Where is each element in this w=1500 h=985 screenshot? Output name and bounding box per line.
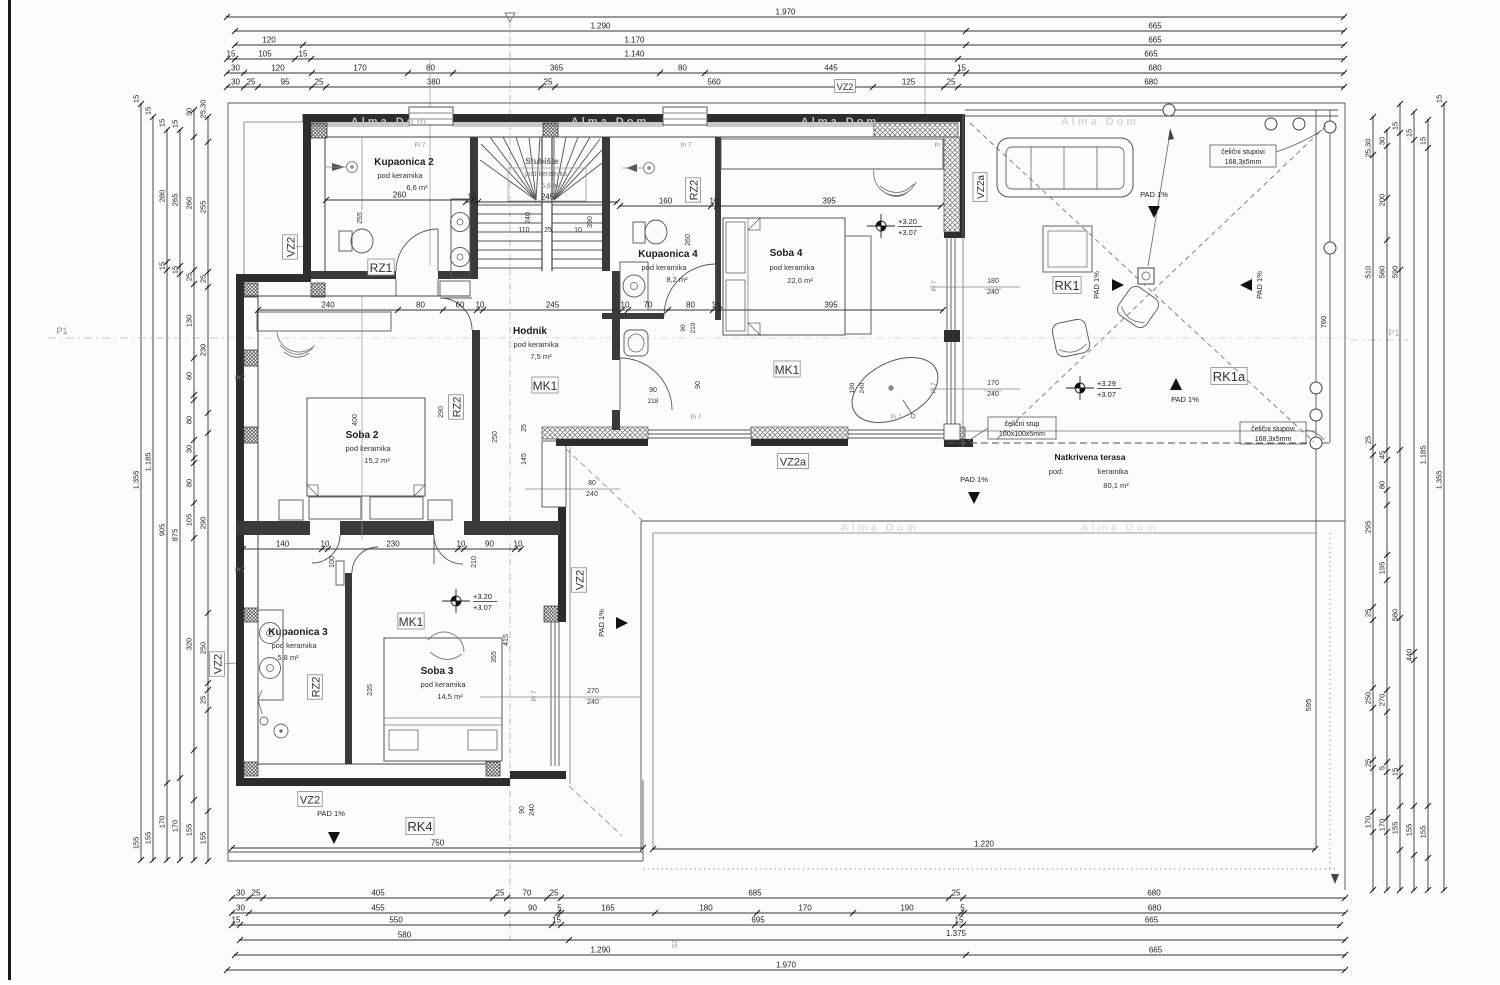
Soba2 nightstands	[279, 500, 303, 520]
right col 3	[1399, 104, 1401, 890]
door Kup3/corridor small arc	[352, 547, 378, 573]
page left border bar	[8, 0, 11, 980]
svg-text:405: 405	[371, 889, 385, 898]
bottom wall upper block (south face of suite) hatch band	[542, 427, 648, 439]
left col 6	[207, 117, 209, 861]
svg-text:15: 15	[158, 262, 167, 270]
dotted vertical right	[1329, 533, 1331, 871]
svg-text:120: 120	[271, 64, 285, 73]
svg-text:30: 30	[1378, 137, 1387, 145]
svg-text:90: 90	[649, 387, 657, 394]
mark RK4	[406, 818, 434, 835]
terrace column circles	[1163, 104, 1175, 116]
svg-text:760: 760	[1319, 316, 1328, 329]
hatched wall band top-right L vertical	[944, 137, 960, 232]
svg-text:čelični stup: čelični stup	[1005, 421, 1040, 428]
svg-text:pod keramika: pod keramika	[769, 263, 815, 272]
bottom row3	[232, 924, 1340, 926]
svg-text:255: 255	[199, 201, 208, 214]
svg-text:RK1: RK1	[1054, 278, 1079, 293]
svg-text:1.290: 1.290	[590, 22, 611, 31]
svg-text:MK1: MK1	[775, 363, 800, 377]
svg-text:80: 80	[588, 480, 596, 487]
svg-text:905: 905	[158, 524, 167, 537]
svg-text:80: 80	[678, 64, 687, 73]
mark VZ2 left lower rot	[210, 652, 225, 676]
svg-text:VZ2a: VZ2a	[780, 457, 807, 469]
wall inner zone under Kup2 wall	[325, 295, 470, 297]
deck dim 1220	[653, 848, 1315, 850]
svg-text:1.185: 1.185	[144, 453, 153, 472]
wall MK1 suite west x612 below door	[612, 410, 620, 430]
svg-text:190: 190	[900, 904, 914, 913]
svg-text:25: 25	[199, 275, 208, 283]
wall top inner zone	[325, 136, 946, 138]
bottom row1	[232, 897, 1345, 899]
terrace X diagonal 1	[970, 123, 1314, 442]
svg-text:170: 170	[798, 904, 812, 913]
svg-text:80,1 m²: 80,1 m²	[1103, 481, 1129, 490]
svg-text:80: 80	[416, 301, 425, 310]
svg-text:1.355: 1.355	[1435, 471, 1444, 490]
Soba3 radiator	[336, 561, 344, 585]
left col 1	[140, 104, 142, 860]
svg-text:270: 270	[1378, 694, 1387, 707]
svg-text:665: 665	[1148, 22, 1162, 31]
svg-text:RK4: RK4	[407, 819, 432, 834]
bottom row6	[227, 969, 1345, 971]
Soba2 chair arcs	[277, 332, 315, 357]
svg-text:30: 30	[185, 108, 194, 116]
svg-text:1.220: 1.220	[974, 840, 995, 849]
survey marker Soba3	[442, 589, 497, 613]
svg-text:210: 210	[690, 322, 697, 333]
windows in south wall of suite	[648, 429, 751, 431]
svg-text:RZ2: RZ2	[452, 397, 464, 418]
svg-text:170: 170	[987, 380, 999, 387]
svg-text:260: 260	[393, 191, 407, 200]
svg-text:170: 170	[1364, 816, 1373, 829]
svg-text:665: 665	[1145, 916, 1159, 925]
pillar hatch top wall mid	[543, 123, 558, 137]
svg-text:RZ2: RZ2	[689, 180, 701, 201]
svg-text:1.290: 1.290	[590, 946, 611, 955]
wall Soba2/Soba3 y521	[236, 521, 310, 535]
svg-text:15: 15	[1419, 137, 1428, 145]
svg-text:5,8 m²: 5,8 m²	[277, 653, 299, 662]
svg-text:595: 595	[1304, 699, 1313, 712]
Soba4 wardrobe	[721, 139, 943, 169]
svg-text:105: 105	[185, 514, 194, 527]
mark VZ2a right rot	[973, 173, 987, 202]
window east wall (VZ2)	[550, 622, 552, 766]
svg-text:Pr 7: Pr 7	[890, 415, 902, 421]
svg-text:10: 10	[712, 301, 721, 310]
mark RZ2 (Kup4)	[686, 178, 701, 202]
terrace X diagonal 2	[995, 126, 1326, 441]
svg-text:VZ2: VZ2	[300, 795, 320, 807]
celicni stup box bottom left	[988, 417, 1056, 439]
svg-text:25: 25	[252, 889, 261, 898]
svg-text:10: 10	[457, 540, 466, 549]
svg-text:15: 15	[1391, 122, 1400, 130]
svg-text:25: 25	[544, 78, 553, 87]
svg-text:Pr 7: Pr 7	[932, 280, 938, 292]
Soba3 chair arc	[428, 632, 464, 660]
svg-text:5: 5	[1378, 766, 1387, 770]
svg-text:PAD 1%: PAD 1%	[1171, 395, 1199, 404]
svg-text:Alma Dom: Alma Dom	[801, 116, 879, 128]
svg-text:VZ2: VZ2	[837, 82, 854, 92]
svg-text:260: 260	[185, 197, 194, 210]
svg-text:15: 15	[227, 50, 236, 59]
svg-text:25: 25	[1364, 759, 1373, 767]
svg-text:RK1a: RK1a	[1213, 369, 1246, 384]
svg-text:15: 15	[552, 916, 561, 925]
svg-text:25,30: 25,30	[1364, 139, 1373, 158]
svg-text:25: 25	[947, 78, 956, 87]
svg-text:665: 665	[1144, 50, 1158, 59]
svg-text:240: 240	[587, 699, 599, 706]
svg-text:125: 125	[902, 78, 916, 87]
Soba4 bed pillows	[726, 222, 745, 273]
svg-text:Alma Dom: Alma Dom	[841, 522, 919, 534]
mark VZ2a south	[777, 454, 808, 469]
window W top-left (VZ2)	[409, 107, 453, 125]
Kup4 vanity	[620, 262, 648, 310]
svg-text:RZ1: RZ1	[370, 261, 393, 275]
right wall hatch cap	[944, 232, 965, 238]
svg-text:VZ2: VZ2	[286, 237, 298, 257]
svg-text:240: 240	[859, 382, 866, 393]
svg-text:+3.07: +3.07	[473, 603, 492, 612]
svg-text:685: 685	[748, 889, 762, 898]
svg-text:155: 155	[132, 837, 141, 850]
svg-text:15,2 m²: 15,2 m²	[364, 456, 390, 465]
svg-text:30: 30	[236, 904, 245, 913]
svg-text:15: 15	[299, 50, 308, 59]
svg-text:MK1: MK1	[399, 615, 424, 629]
Kup2 dim 260	[326, 199, 473, 201]
svg-text:15: 15	[1435, 95, 1444, 103]
bottom wall lower-left block	[236, 778, 510, 786]
svg-text:80: 80	[185, 416, 194, 424]
svg-text:695: 695	[751, 916, 765, 925]
dim 1.970 top	[227, 16, 1344, 18]
Soba3 pillows	[389, 730, 418, 750]
svg-text:560: 560	[707, 78, 721, 87]
svg-text:45: 45	[1378, 451, 1387, 459]
svg-text:160: 160	[659, 197, 673, 206]
svg-text:5: 5	[557, 904, 562, 913]
svg-text:380: 380	[427, 78, 441, 87]
terrace right edge lines	[1315, 110, 1317, 849]
Soba3 bed	[384, 638, 502, 761]
Kup2 toilet	[339, 231, 352, 251]
corridor dim row	[258, 309, 943, 311]
svg-text:Pr 7: Pr 7	[680, 143, 692, 149]
svg-text:1.970: 1.970	[775, 8, 796, 17]
svg-text:320: 320	[185, 638, 194, 651]
svg-text:200: 200	[1378, 194, 1387, 207]
step wall dark	[236, 274, 311, 282]
svg-text:90: 90	[680, 324, 687, 332]
dim 750	[232, 847, 643, 849]
svg-text:270: 270	[587, 688, 599, 695]
svg-text:keramika: keramika	[1098, 467, 1129, 476]
svg-text:Kupaonica 2: Kupaonica 2	[374, 157, 434, 168]
celicni stupovi box bottom right	[1240, 422, 1306, 444]
terrace chair 2	[1051, 318, 1091, 358]
svg-text:1.375: 1.375	[946, 929, 967, 938]
Kup4 wall symbol	[644, 163, 655, 174]
svg-text:Soba 4: Soba 4	[770, 248, 803, 259]
svg-text:60: 60	[456, 301, 465, 310]
svg-text:pod keramika: pod keramika	[271, 641, 317, 650]
bottom row2	[232, 912, 1345, 914]
staircase treads left flight	[478, 204, 542, 206]
svg-text:15: 15	[955, 916, 964, 925]
svg-text:15: 15	[171, 266, 180, 274]
east wall lower-left block dark	[558, 441, 566, 622]
svg-text:1.970: 1.970	[776, 961, 797, 970]
svg-text:25: 25	[1364, 436, 1373, 444]
svg-text:100: 100	[329, 556, 336, 568]
svg-text:680: 680	[1144, 78, 1158, 87]
svg-text:22,0 m²: 22,0 m²	[787, 276, 813, 285]
svg-text:10: 10	[621, 301, 630, 310]
svg-text:VZ2: VZ2	[213, 654, 225, 674]
left col 4	[179, 130, 181, 860]
svg-text:+3.20: +3.20	[898, 217, 917, 226]
svg-text:15: 15	[957, 64, 966, 73]
svg-text:70: 70	[523, 889, 532, 898]
terrace top edge lines	[965, 109, 1338, 111]
svg-text:580: 580	[398, 931, 412, 940]
dim 15/105/15/1140/665	[227, 58, 1344, 60]
dim row6	[227, 86, 1344, 88]
svg-text:pod keramika: pod keramika	[345, 444, 391, 453]
svg-text:155: 155	[1391, 822, 1400, 835]
svg-text:295: 295	[1364, 521, 1373, 534]
celicni stupovi box top	[1210, 145, 1276, 167]
pillar hatch step wall	[244, 283, 258, 297]
svg-text:PAD 1%: PAD 1%	[1255, 271, 1264, 299]
svg-text:180: 180	[699, 904, 713, 913]
svg-text:30: 30	[236, 889, 245, 898]
svg-text:6,6 m²: 6,6 m²	[406, 183, 428, 192]
svg-text:250: 250	[199, 642, 208, 655]
stairs dim	[466, 201, 617, 203]
svg-text:245: 245	[546, 301, 560, 310]
right col 6	[1443, 104, 1445, 890]
svg-text:Alma Dom: Alma Dom	[571, 116, 649, 128]
wall stairs east x602	[602, 137, 610, 271]
wall stairs west x470	[470, 137, 478, 271]
svg-text:25: 25	[544, 227, 552, 234]
svg-text:210: 210	[471, 556, 478, 568]
door Kup4 arc	[664, 264, 716, 316]
svg-text:90: 90	[695, 381, 702, 389]
svg-text:6,6 m²: 6,6 m²	[541, 183, 562, 190]
right col 1	[1372, 117, 1374, 890]
Kup3 shower symbol	[260, 717, 268, 725]
staircase landing dashed	[508, 168, 586, 201]
svg-text:30: 30	[185, 445, 194, 453]
left col 5	[193, 110, 195, 860]
svg-text:Pr 7: Pr 7	[934, 143, 946, 149]
svg-text:665: 665	[1148, 36, 1162, 45]
deck top edge	[641, 520, 1345, 522]
MK1 suite bathtub	[841, 344, 948, 436]
svg-text:170: 170	[353, 64, 367, 73]
svg-text:P1: P1	[56, 326, 67, 336]
svg-text:218: 218	[648, 398, 659, 405]
east wall outer line	[569, 447, 571, 784]
right wall outer dark line	[960, 114, 965, 237]
wall Kup3/Soba3 x345	[345, 573, 352, 764]
svg-text:15: 15	[1405, 129, 1414, 137]
right col 4	[1413, 112, 1415, 890]
svg-text:1.355: 1.355	[132, 471, 141, 490]
dotted line bottom	[643, 868, 1335, 870]
svg-text:680: 680	[1147, 889, 1161, 898]
svg-text:590: 590	[1391, 266, 1400, 279]
witness lines from top dims	[429, 60, 431, 266]
svg-text:455: 455	[371, 904, 385, 913]
svg-text:290: 290	[438, 406, 445, 418]
left wall upper dark	[303, 114, 311, 282]
svg-text:170: 170	[171, 820, 180, 833]
Kup2 vanity	[451, 199, 470, 278]
svg-text:25,30: 25,30	[199, 100, 208, 119]
svg-text:Alma Dom: Alma Dom	[1081, 522, 1159, 534]
svg-text:290: 290	[199, 517, 208, 530]
svg-text:80: 80	[185, 479, 194, 487]
left col 2	[152, 117, 154, 860]
right wall windows below hatch	[946, 237, 948, 424]
dim 1290/665	[235, 30, 1344, 32]
svg-text:10: 10	[321, 540, 330, 549]
mark RK1a	[1211, 368, 1247, 385]
svg-text:240: 240	[525, 212, 532, 224]
svg-text:240: 240	[987, 391, 999, 398]
svg-text:140: 140	[276, 540, 290, 549]
svg-text:Pr 7: Pr 7	[690, 415, 702, 421]
bottom row5	[235, 954, 1345, 956]
mark MK1 suite	[774, 361, 800, 377]
svg-text:S2: S2	[672, 940, 679, 949]
svg-text:pod keramika: pod keramika	[420, 680, 466, 689]
svg-text:195: 195	[1378, 562, 1387, 575]
svg-text:14,5 m²: 14,5 m²	[437, 692, 463, 701]
staircase center stringers	[541, 137, 543, 271]
svg-text:pod:: pod:	[1049, 467, 1064, 476]
svg-text:čelični stupovi: čelični stupovi	[1251, 426, 1295, 433]
svg-text:MK1: MK1	[533, 379, 558, 393]
svg-text:25: 25	[496, 889, 505, 898]
svg-text:Natkrivena terasa: Natkrivena terasa	[1055, 452, 1126, 462]
svg-text:145: 145	[521, 453, 528, 465]
mark MK1 hodnik	[532, 377, 558, 393]
left wall lower dark	[236, 274, 244, 786]
svg-text:100x100x5mm: 100x100x5mm	[999, 431, 1045, 438]
wall Kup4 west x612 lower part	[612, 271, 620, 360]
svg-text:168,3x5mm: 168,3x5mm	[1255, 436, 1292, 443]
svg-text:7,5 m²: 7,5 m²	[530, 352, 552, 361]
dim row5	[227, 72, 1344, 74]
svg-text:Hodnik: Hodnik	[513, 326, 547, 337]
svg-text:165: 165	[601, 904, 615, 913]
svg-text:365: 365	[550, 64, 564, 73]
svg-text:15: 15	[144, 107, 153, 115]
wall top exterior dark band	[303, 114, 410, 122]
svg-text:pod keramika: pod keramika	[513, 340, 559, 349]
svg-text:680: 680	[1148, 64, 1162, 73]
svg-text:260: 260	[685, 234, 692, 246]
wall Kup4/Soba4 x715	[715, 137, 721, 320]
svg-text:10: 10	[710, 197, 719, 206]
svg-text:25: 25	[521, 424, 528, 432]
svg-text:10: 10	[514, 540, 523, 549]
staircase fan rays right	[553, 137, 555, 200]
svg-text:Kupaonica 4: Kupaonica 4	[638, 249, 698, 260]
Soba4 top dim	[620, 205, 941, 207]
valley dashed	[566, 449, 644, 522]
svg-text:15: 15	[1391, 768, 1400, 776]
mark VZ2 bottom	[298, 792, 322, 807]
svg-text:Alma Dom: Alma Dom	[1061, 116, 1139, 128]
svg-text:550: 550	[389, 916, 403, 925]
svg-text:95: 95	[281, 78, 290, 87]
door Soba2 arc	[440, 298, 472, 330]
svg-text:Alma Dom: Alma Dom	[351, 116, 429, 128]
window dim 180/240	[930, 286, 1020, 288]
svg-text:15: 15	[171, 120, 180, 128]
svg-text:440: 440	[1405, 649, 1414, 662]
Soba2 witness line	[361, 296, 363, 540]
svg-text:560: 560	[1378, 266, 1387, 279]
mark RK1	[1053, 277, 1081, 294]
svg-text:Pr 7: Pr 7	[532, 690, 538, 702]
svg-text:Kupaonica 3: Kupaonica 3	[268, 627, 328, 638]
valley dashed SE	[569, 786, 622, 836]
svg-text:180: 180	[987, 278, 999, 285]
Soba2 closet	[257, 312, 391, 331]
door RZ1 gap + arc	[396, 229, 438, 271]
Kup4 bidet	[624, 330, 648, 356]
svg-text:PAD 1%: PAD 1%	[597, 609, 606, 637]
svg-text:230: 230	[199, 344, 208, 357]
svg-text:155: 155	[1405, 824, 1414, 837]
svg-text:Stubište: Stubište	[525, 156, 559, 166]
svg-text:60: 60	[185, 372, 194, 380]
section mark P2 triangle	[505, 13, 515, 22]
svg-text:415: 415	[503, 634, 510, 646]
Soba2 bed	[307, 398, 425, 496]
svg-text:395: 395	[822, 197, 836, 206]
svg-text:80: 80	[426, 64, 435, 73]
mark VZ2 east rot	[572, 568, 587, 592]
window dim 170/240	[930, 388, 1020, 390]
svg-text:680: 680	[1148, 904, 1162, 913]
Kup4 toilet	[633, 222, 645, 243]
mark RZ2 (Kup3)	[308, 675, 323, 699]
svg-text:90: 90	[519, 806, 526, 814]
svg-text:240: 240	[586, 491, 598, 498]
svg-text:235: 235	[367, 684, 374, 696]
window frame piece right of RZ1	[440, 281, 470, 296]
